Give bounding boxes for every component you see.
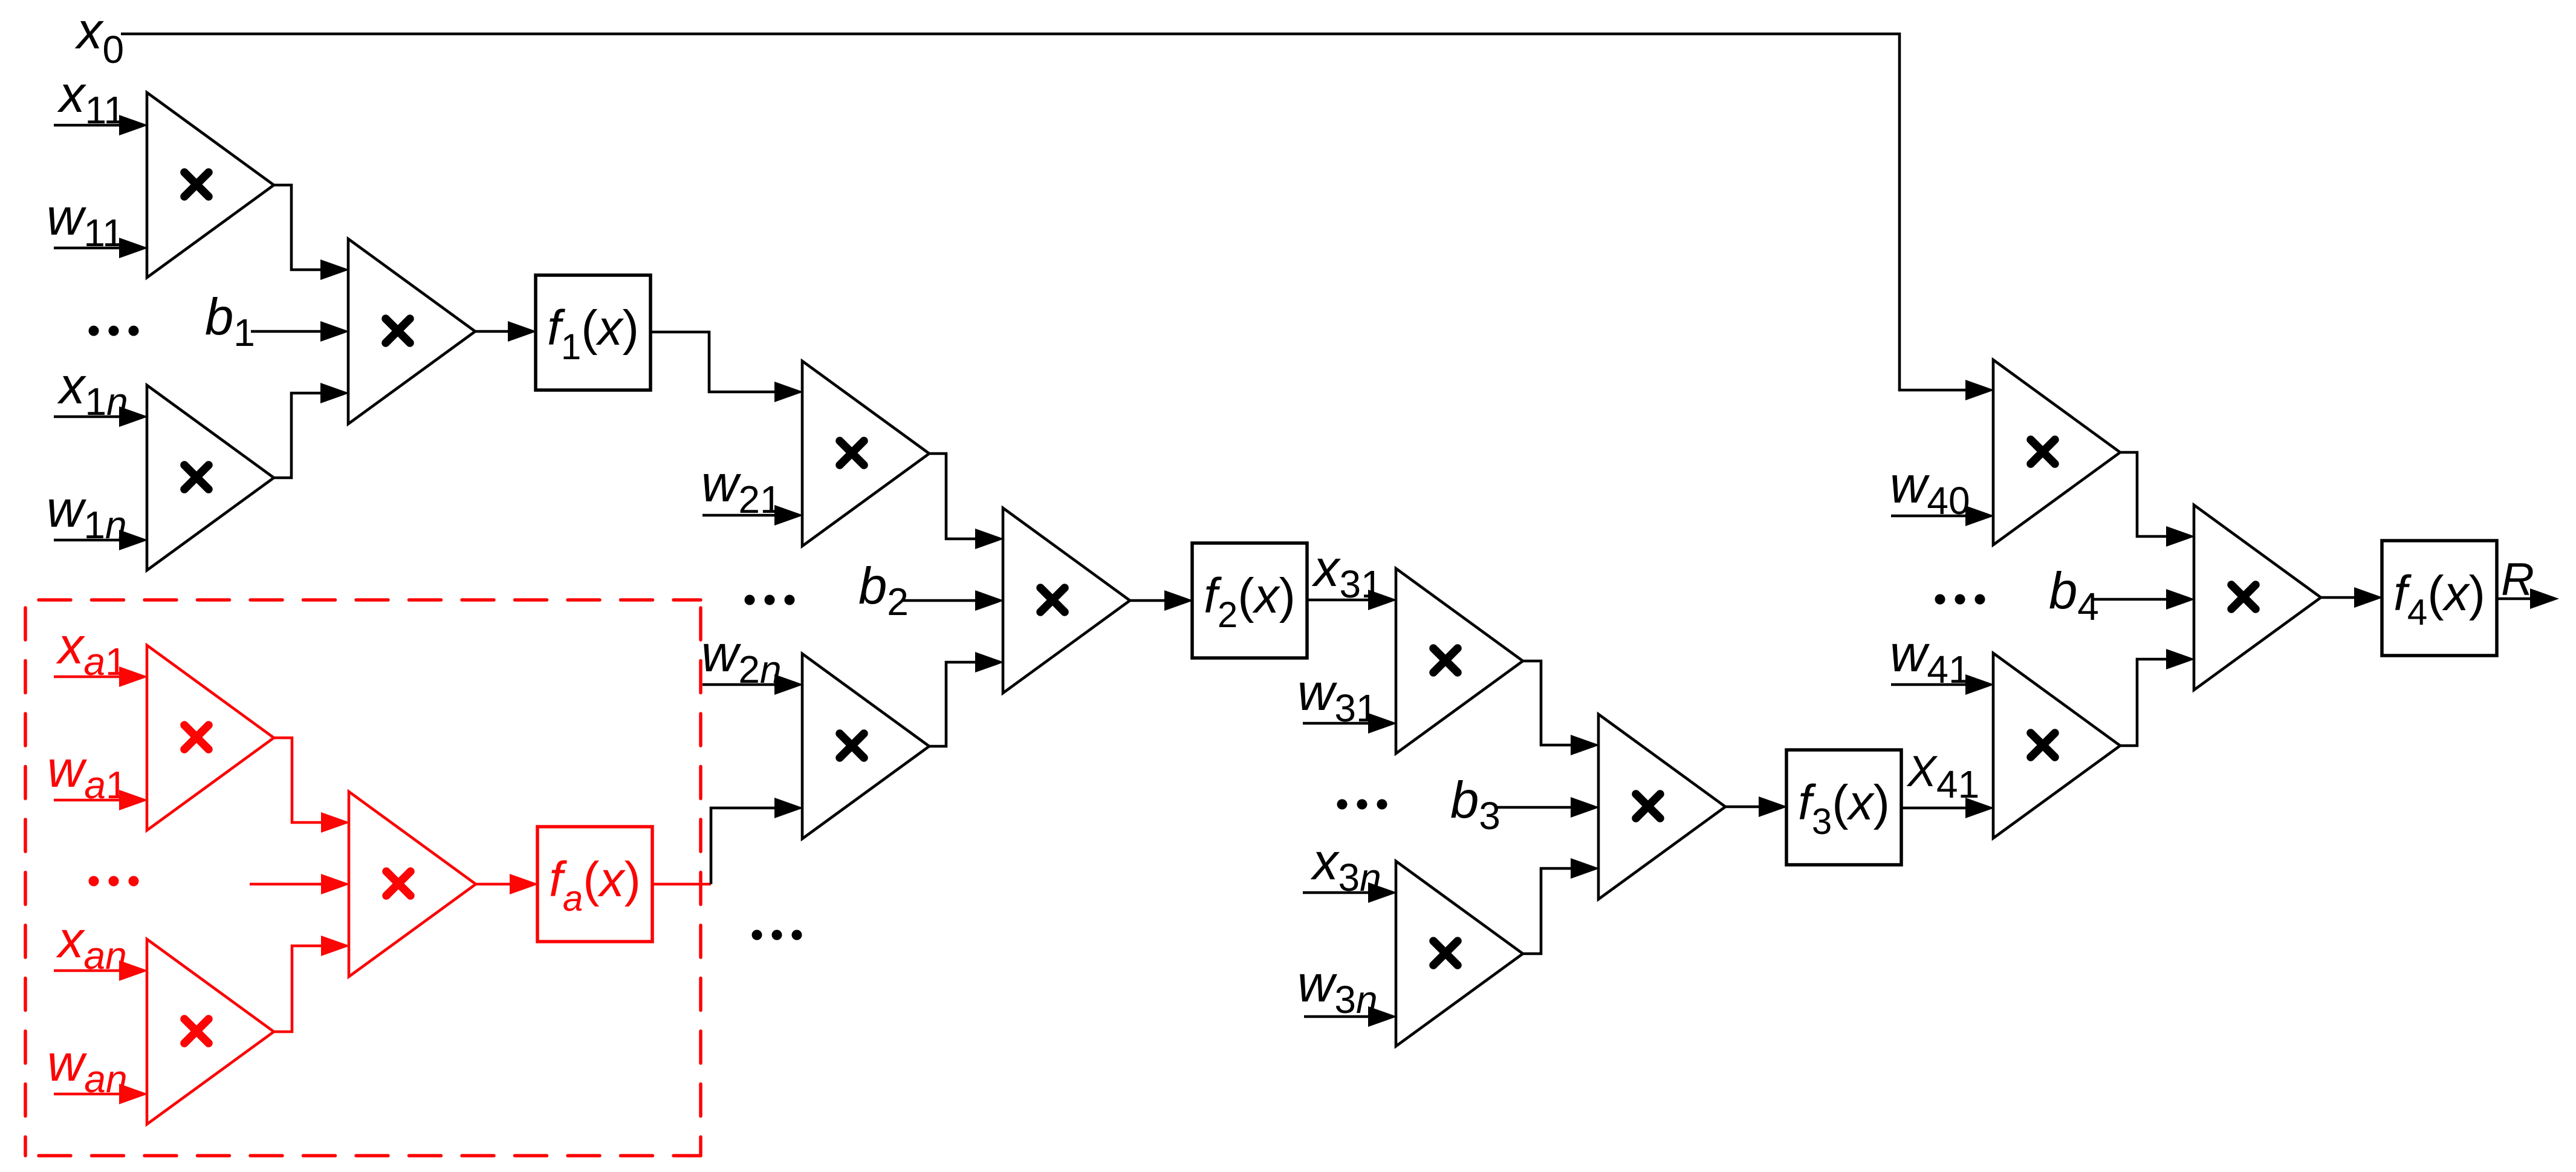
wire x1n input — [54, 406, 148, 427]
weight label w3n — [1297, 956, 1378, 1021]
red dashed region boundary — [25, 600, 701, 1156]
input label w1n — [47, 481, 127, 547]
weight label w41 — [1890, 625, 1970, 691]
wire b1 input — [251, 321, 349, 342]
multiplier M31 — [1396, 568, 1523, 754]
activation box f2(x) — [1192, 543, 1307, 658]
bias label b1 — [205, 288, 255, 354]
input label xan — [56, 911, 127, 977]
activation box f3(x) — [1786, 750, 1901, 865]
multiplier M2n — [802, 654, 929, 839]
input label wa1 — [47, 741, 128, 807]
wire M2n out to sum S2 — [929, 652, 1004, 746]
signal label x31 — [1311, 540, 1383, 606]
wire xa1 input — [54, 666, 148, 687]
wire b3 input — [1497, 797, 1600, 818]
multiplier M1n (x1n*w1n) — [147, 385, 274, 570]
wire w1n input — [54, 530, 148, 550]
bias label b4 — [2049, 562, 2099, 628]
summing node S4 — [2194, 505, 2321, 690]
ellipsis red inputs — [89, 876, 139, 887]
wire x11 input — [54, 115, 148, 135]
wire x0 bus to layer 4 — [121, 34, 1994, 400]
multiplier Man (xan*wan) — [147, 939, 274, 1124]
wire M40 out to sum S4 — [2120, 452, 2195, 547]
signal label X41 — [1906, 747, 1979, 806]
wire fa output (red segment) — [652, 883, 711, 886]
ellipsis layer-2 upper — [745, 595, 795, 605]
wire M11 out to sum S1 — [274, 185, 349, 280]
multiplier M41 — [1993, 653, 2120, 838]
wire w2n input — [702, 674, 803, 695]
weight label w2n — [701, 625, 782, 691]
ellipsis layer-3 inputs — [1337, 799, 1387, 810]
wire fa out riser to M2n — [711, 798, 803, 884]
weight label w31 — [1297, 664, 1378, 730]
wire S4 to f4 box — [2321, 587, 2383, 608]
wire w40 input — [1891, 506, 1994, 526]
activation box f1(x) — [536, 275, 650, 390]
wire M1n out to sum S1 — [274, 383, 349, 478]
input label xa1 — [56, 617, 127, 683]
wire b2 input — [902, 590, 1004, 611]
input label x1n — [57, 357, 128, 423]
bias label b2 — [858, 558, 909, 623]
weight label w40 — [1890, 457, 1970, 523]
input label x11 — [57, 66, 125, 132]
bias label b3 — [1450, 772, 1501, 838]
wire wan input — [54, 1084, 148, 1104]
summing node S2 — [1003, 508, 1130, 693]
weight label w21 — [701, 455, 782, 521]
activation box f4(x) — [2382, 541, 2497, 656]
summing node S3 — [1598, 714, 1725, 899]
wire M41 out to sum S4 — [2120, 649, 2195, 746]
wire xan input — [54, 960, 148, 981]
wire Sa to fa box — [476, 874, 539, 894]
multiplier M11 (x11*w11) — [147, 93, 274, 278]
wire S2 to f2 box — [1130, 590, 1193, 611]
wire Man out to red sum — [274, 936, 350, 1032]
wire M31 out to sum S3 — [1523, 661, 1600, 755]
ellipsis layer-4 inputs — [1935, 594, 1985, 605]
wire b4 input — [2092, 589, 2195, 610]
red summing node Sa — [349, 792, 476, 977]
wire w31 input — [1303, 713, 1397, 734]
output label R — [2501, 554, 2534, 605]
input label wan — [47, 1035, 128, 1101]
wire wa1 input — [54, 790, 148, 810]
wire w21 input — [702, 505, 803, 526]
summing node S1 — [348, 239, 475, 424]
multiplier Ma1 (xa1*wa1) — [147, 645, 274, 830]
wire w3n input — [1304, 1006, 1397, 1027]
wire output R — [2497, 588, 2559, 609]
wire w41 input — [1891, 674, 1994, 695]
wire M3n out to sum S3 — [1523, 858, 1600, 954]
wire Ma1 out to red sum — [274, 738, 350, 833]
input label x3n — [1310, 833, 1381, 899]
node x0 label — [74, 2, 124, 71]
wire red bias input — [250, 874, 350, 894]
multiplier M21 — [802, 361, 929, 546]
multiplier M3n — [1396, 861, 1523, 1046]
wire w11 input — [54, 238, 148, 258]
multiplier M40 (x0*w40) — [1993, 360, 2120, 545]
wire S3 to f3 box — [1725, 796, 1788, 817]
wire f3 out x41 to M41 — [1901, 798, 1994, 818]
wire M21 out to sum S2 — [929, 454, 1004, 549]
wire f2 out x31 to M31 — [1306, 590, 1397, 610]
input label w11 — [47, 189, 124, 255]
activation box fa(x) — [537, 827, 652, 942]
wire f1 out to multiplier M21 — [650, 332, 803, 402]
ellipsis layer-1 inputs — [89, 326, 139, 336]
wire x3n input — [1303, 882, 1397, 903]
wire S1 to f1 box — [475, 321, 537, 342]
ellipsis layer-2 lower — [752, 930, 802, 940]
